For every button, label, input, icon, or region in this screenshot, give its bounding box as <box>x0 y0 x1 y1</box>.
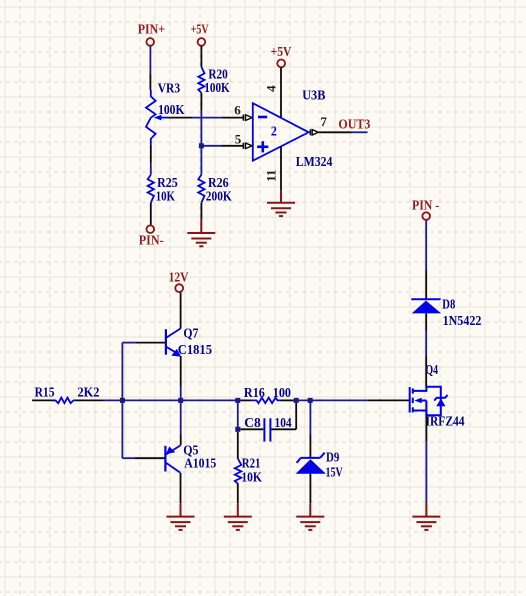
svg-text:6: 6 <box>234 103 241 118</box>
svg-text:2: 2 <box>271 124 277 139</box>
svg-text:R26: R26 <box>208 176 229 191</box>
svg-text:OUT3: OUT3 <box>338 117 370 132</box>
svg-text:+5V: +5V <box>271 45 292 60</box>
svg-text:D8: D8 <box>442 298 455 313</box>
svg-text:A1015: A1015 <box>184 457 216 472</box>
svg-text:D9: D9 <box>326 451 339 466</box>
svg-text:5: 5 <box>235 131 242 146</box>
svg-text:U3B: U3B <box>302 88 325 103</box>
svg-text:PIN+: PIN+ <box>138 23 165 38</box>
svg-text:PIN -: PIN - <box>412 198 439 213</box>
svg-text:PIN-: PIN- <box>139 234 164 249</box>
svg-text:15V: 15V <box>326 465 343 480</box>
svg-text:100K: 100K <box>158 103 184 118</box>
svg-text:Q7: Q7 <box>183 327 198 342</box>
svg-text:R15: R15 <box>35 386 55 401</box>
svg-text:Q4: Q4 <box>426 363 439 378</box>
svg-text:IRFZ44: IRFZ44 <box>426 415 465 430</box>
svg-text:LM324: LM324 <box>296 155 333 170</box>
svg-text:R25: R25 <box>157 176 178 191</box>
svg-text:+5V: +5V <box>191 23 209 38</box>
svg-text:7: 7 <box>320 114 327 129</box>
svg-text:R21: R21 <box>242 456 261 471</box>
svg-text:4: 4 <box>263 85 278 92</box>
svg-text:10K: 10K <box>241 471 262 486</box>
svg-text:12V: 12V <box>169 270 189 285</box>
svg-text:2K2: 2K2 <box>78 386 100 401</box>
svg-text:C1815: C1815 <box>178 343 212 358</box>
svg-text:1N5422: 1N5422 <box>443 314 482 329</box>
svg-text:100K: 100K <box>204 81 229 96</box>
svg-text:11: 11 <box>263 170 278 182</box>
svg-text:VR3: VR3 <box>158 81 180 96</box>
svg-text:200K: 200K <box>206 190 232 205</box>
svg-text:10K: 10K <box>156 190 175 205</box>
